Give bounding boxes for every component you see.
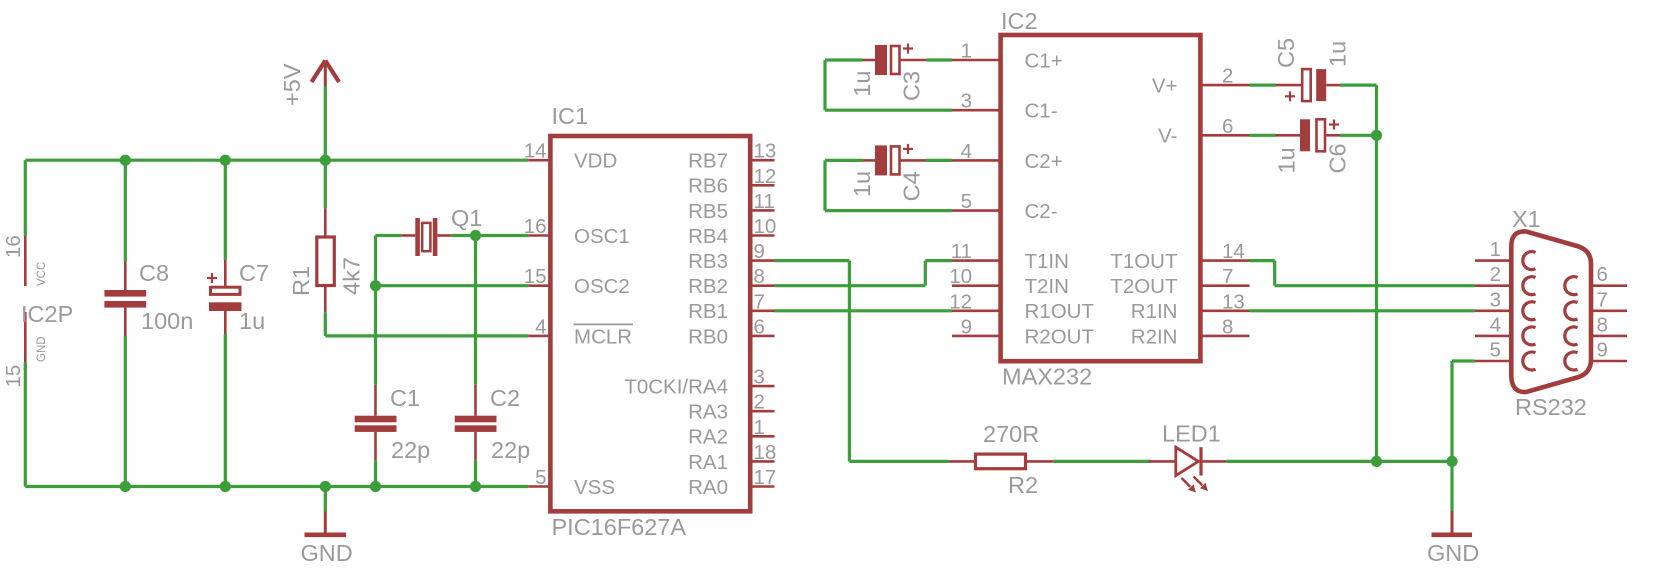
junction LED row / X1 pin5 / GND2: [1446, 456, 1457, 467]
resistor R1 4k7: [288, 208, 365, 312]
svg-text:11: 11: [951, 240, 972, 263]
svg-text:PIC16F627A: PIC16F627A: [552, 514, 687, 540]
svg-text:100n: 100n: [141, 308, 193, 334]
wire R2 to LED1: [1053, 460, 1151, 463]
svg-text:R1IN: R1IN: [1131, 300, 1178, 323]
svg-text:C6: C6: [1325, 143, 1351, 173]
wire C4 left horizontal: [825, 159, 863, 162]
svg-text:15: 15: [2, 365, 25, 388]
wire C3 left vertical: [823, 60, 826, 110]
svg-text:VSS: VSS: [574, 476, 615, 499]
svg-text:9: 9: [754, 240, 765, 263]
wire C2 bottom net: [474, 460, 477, 486]
junction C6 node: [1371, 130, 1382, 141]
svg-text:V+: V+: [1152, 75, 1178, 98]
svg-text:7: 7: [1222, 265, 1233, 288]
svg-text:VDD: VDD: [574, 150, 617, 173]
wire C2 column vertical: [474, 236, 477, 385]
svg-text:T1OUT: T1OUT: [1110, 250, 1178, 273]
svg-text:C1-: C1-: [1025, 100, 1058, 123]
svg-text:4: 4: [535, 315, 546, 338]
svg-text:X1: X1: [1512, 206, 1541, 232]
wire R1IN pin13 to X1 pin3: [1250, 309, 1476, 312]
svg-text:C2+: C2+: [1025, 150, 1063, 173]
junction LED row / C6 column: [1371, 456, 1382, 467]
svg-text:IC2P: IC2P: [21, 301, 73, 327]
wire RB3 horizontal: [775, 259, 850, 262]
wire RB1 to R1OUT pin12: [775, 309, 953, 312]
svg-text:RB5: RB5: [688, 200, 728, 223]
wire X1 pin5 horizontal: [1452, 359, 1475, 362]
svg-text:MAX232: MAX232: [1002, 364, 1092, 390]
svg-text:12: 12: [754, 165, 777, 188]
capacitor C8: [104, 260, 193, 336]
svg-text:4k7: 4k7: [339, 257, 365, 295]
svg-text:10: 10: [949, 265, 972, 288]
wire RB3 to R2: [849, 460, 948, 463]
capacitor C4 (polarized) 1u: [849, 144, 926, 202]
wire Q1 left to OSC2 column: [376, 234, 402, 237]
svg-text:VCC: VCC: [36, 262, 48, 286]
capacitor C6 (polarized) 1u: [1274, 119, 1351, 173]
crystal Q1: [401, 205, 482, 256]
svg-text:15: 15: [524, 265, 547, 288]
op-amp IC1 PIC16F627A (microcontroller): [524, 103, 777, 540]
wire RB2 vertical up: [924, 261, 927, 286]
svg-text:9: 9: [961, 315, 972, 338]
junction bottom rail / C8: [120, 481, 131, 492]
svg-text:OSC1: OSC1: [574, 225, 630, 248]
svg-text:C5: C5: [1273, 38, 1299, 68]
svg-text:C1+: C1+: [1025, 49, 1063, 72]
wire LED1 to GND node: [1226, 460, 1452, 463]
svg-text:C8: C8: [139, 260, 169, 286]
svg-text:RA1: RA1: [688, 451, 728, 474]
capacitor C7 (polarized): [207, 260, 269, 334]
wire GND bottom rail: [25, 485, 528, 488]
svg-text:1: 1: [1490, 238, 1501, 261]
junction OSC2 / C1 column: [370, 280, 381, 291]
svg-text:1u: 1u: [849, 71, 875, 97]
svg-text:OSC2: OSC2: [574, 275, 630, 298]
svg-text:V-: V-: [1158, 125, 1177, 148]
svg-text:5: 5: [1490, 339, 1501, 362]
svg-text:3: 3: [754, 366, 765, 389]
svg-text:C7: C7: [239, 260, 269, 286]
ground GND (right): [1427, 511, 1479, 566]
svg-text:1u: 1u: [1274, 147, 1300, 173]
svg-text:1u: 1u: [849, 171, 875, 197]
junction bottom rail / C1: [370, 481, 381, 492]
svg-text:GND: GND: [1427, 540, 1479, 566]
wire V+ pin2 to C5: [1250, 83, 1276, 86]
wire R1 top net: [324, 160, 327, 208]
svg-text:5: 5: [535, 466, 546, 489]
junction OSC1 / C2 column: [470, 230, 481, 241]
svg-text:17: 17: [754, 466, 777, 489]
op-amp IC2 MAX232 (driver): [949, 8, 1249, 390]
wire OSC2 column vertical: [374, 236, 377, 385]
svg-text:Q1: Q1: [451, 205, 482, 231]
resistor R2 270R: [949, 421, 1054, 498]
svg-text:13: 13: [754, 140, 777, 163]
svg-text:6: 6: [754, 315, 765, 338]
wire +5V top rail: [25, 159, 528, 162]
wire C6 node vertical down: [1375, 135, 1378, 461]
power pins IC2P pin 16 VCC: [2, 235, 48, 286]
svg-text:13: 13: [1222, 290, 1245, 313]
wire C4 to IC2 pin5: [825, 209, 952, 212]
wire C3 to IC2 pin3: [825, 109, 952, 112]
wire left VCC drop to IC2P pin16: [24, 160, 27, 236]
svg-text:8: 8: [1597, 313, 1608, 336]
svg-text:2: 2: [1222, 65, 1233, 88]
svg-text:3: 3: [1490, 288, 1501, 311]
svg-text:IC2: IC2: [1001, 8, 1038, 34]
svg-text:1: 1: [961, 40, 972, 63]
wire C5 down to C6 node: [1375, 85, 1378, 135]
svg-text:6: 6: [1222, 115, 1233, 138]
svg-text:2: 2: [754, 391, 765, 414]
svg-text:R2OUT: R2OUT: [1025, 325, 1095, 348]
svg-text:7: 7: [1597, 288, 1608, 311]
svg-text:T2IN: T2IN: [1025, 275, 1069, 298]
wire GND1 stem: [324, 487, 327, 512]
junction top rail / C7: [220, 155, 231, 166]
svg-text:RS232: RS232: [1515, 394, 1587, 420]
svg-text:RB7: RB7: [688, 150, 728, 173]
wire C6 right to node: [1340, 134, 1377, 137]
svg-text:16: 16: [2, 235, 25, 258]
svg-text:RB4: RB4: [688, 225, 728, 248]
svg-text:14: 14: [524, 140, 547, 163]
capacitor C2 22p: [455, 385, 531, 463]
wire R1 to MCLR pin4: [325, 334, 528, 337]
wire C8 bottom lead net: [124, 336, 127, 487]
svg-text:R2: R2: [1008, 472, 1038, 498]
wire RB2 to T1IN pin11: [925, 259, 952, 262]
svg-text:3: 3: [961, 90, 972, 113]
svg-text:C1: C1: [390, 385, 420, 411]
svg-text:16: 16: [524, 215, 547, 238]
svg-text:8: 8: [754, 265, 765, 288]
wire OSC1 to IC1 pin16: [476, 234, 529, 237]
svg-text:T2OUT: T2OUT: [1110, 275, 1178, 298]
svg-text:T1IN: T1IN: [1025, 250, 1069, 273]
svg-text:9: 9: [1597, 339, 1608, 362]
svg-text:GND: GND: [301, 540, 353, 566]
svg-text:6: 6: [1597, 263, 1608, 286]
LED LED1: [1149, 421, 1227, 493]
svg-text:T0CKI/RA4: T0CKI/RA4: [624, 376, 728, 399]
wire T1OUT to X1 pin2: [1275, 284, 1475, 287]
wire C1 bottom net: [374, 460, 377, 486]
wire RB3 vertical down: [848, 261, 851, 462]
junction top rail / +5V / R1: [320, 155, 331, 166]
wire +5V stem: [324, 86, 327, 160]
svg-text:RB0: RB0: [688, 325, 728, 348]
svg-text:4: 4: [961, 140, 972, 163]
svg-text:8: 8: [1222, 315, 1233, 338]
junction top rail / C8: [120, 155, 131, 166]
svg-text:RA0: RA0: [688, 476, 728, 499]
wire C3 right to IC2 pin1: [926, 58, 952, 61]
capacitor C1 22p: [355, 385, 431, 463]
svg-text:C2-: C2-: [1025, 200, 1058, 223]
svg-text:RA3: RA3: [688, 401, 728, 424]
svg-text:12: 12: [949, 290, 972, 313]
svg-text:18: 18: [754, 441, 777, 464]
wire C4 left vertical: [823, 160, 826, 210]
svg-text:10: 10: [754, 215, 777, 238]
wire Q1 right to OSC1 junction: [451, 234, 475, 237]
svg-text:4: 4: [1490, 313, 1501, 336]
svg-text:2: 2: [1490, 263, 1501, 286]
svg-text:GND: GND: [36, 336, 48, 362]
connector X1 RS232 (DB9): [1475, 206, 1627, 420]
wire C4 right to IC2 pin4: [926, 159, 952, 162]
ground GND (left): [301, 512, 353, 567]
svg-text:IC1: IC1: [552, 103, 589, 129]
wire GND2 stem: [1450, 461, 1453, 511]
svg-text:C4: C4: [899, 171, 925, 201]
capacitor C5 (polarized) 1u: [1273, 38, 1351, 101]
wire RB2 horizontal: [775, 284, 926, 287]
svg-text:1: 1: [754, 416, 765, 439]
svg-text:C3: C3: [899, 71, 925, 101]
capacitor C3 (polarized) 1u: [849, 44, 926, 102]
svg-text:1u: 1u: [239, 308, 265, 334]
junction bottom rail / GND stem: [320, 481, 331, 492]
svg-text:14: 14: [1222, 240, 1245, 263]
wire C3 left horizontal: [825, 58, 863, 61]
wire V- pin6 to C6: [1250, 134, 1276, 137]
wire R1 bottom net vertical: [324, 312, 327, 336]
power pins IC2P pin 15 GND: [2, 312, 48, 388]
wire T1OUT pin14 out: [1250, 259, 1275, 262]
wire C7 bottom lead net: [224, 334, 227, 487]
svg-text:RB3: RB3: [688, 250, 728, 273]
wire C7 top lead net: [224, 160, 227, 260]
svg-text:RB1: RB1: [688, 300, 728, 323]
svg-text:RA2: RA2: [688, 426, 728, 449]
svg-text:7: 7: [754, 290, 765, 313]
svg-text:LED1: LED1: [1162, 421, 1221, 447]
svg-text:R1: R1: [288, 266, 314, 296]
wire C8 top lead net: [124, 160, 127, 262]
junction bottom rail / C2: [470, 481, 481, 492]
svg-text:22p: 22p: [391, 437, 430, 463]
wire X1 pin5 vertical down: [1450, 361, 1453, 461]
svg-text:22p: 22p: [491, 437, 530, 463]
svg-text:C2: C2: [490, 385, 520, 411]
svg-text:270R: 270R: [983, 421, 1039, 447]
svg-text:RB6: RB6: [688, 175, 728, 198]
wire T1OUT vertical: [1273, 261, 1276, 286]
svg-text:R2IN: R2IN: [1131, 325, 1178, 348]
wire left GND rise from IC2P pin15: [24, 362, 27, 487]
svg-text:5: 5: [961, 190, 972, 213]
wire C5 right: [1340, 83, 1377, 86]
junction bottom rail / C7: [220, 481, 231, 492]
svg-text:1u: 1u: [1325, 41, 1351, 67]
wire OSC2 to IC1 pin15: [376, 284, 529, 287]
svg-text:11: 11: [754, 190, 775, 213]
supply +5V: [279, 61, 339, 107]
svg-text:R1OUT: R1OUT: [1025, 300, 1095, 323]
svg-text:RB2: RB2: [688, 275, 728, 298]
svg-text:MCLR: MCLR: [574, 325, 632, 348]
svg-text:+5V: +5V: [279, 63, 305, 106]
